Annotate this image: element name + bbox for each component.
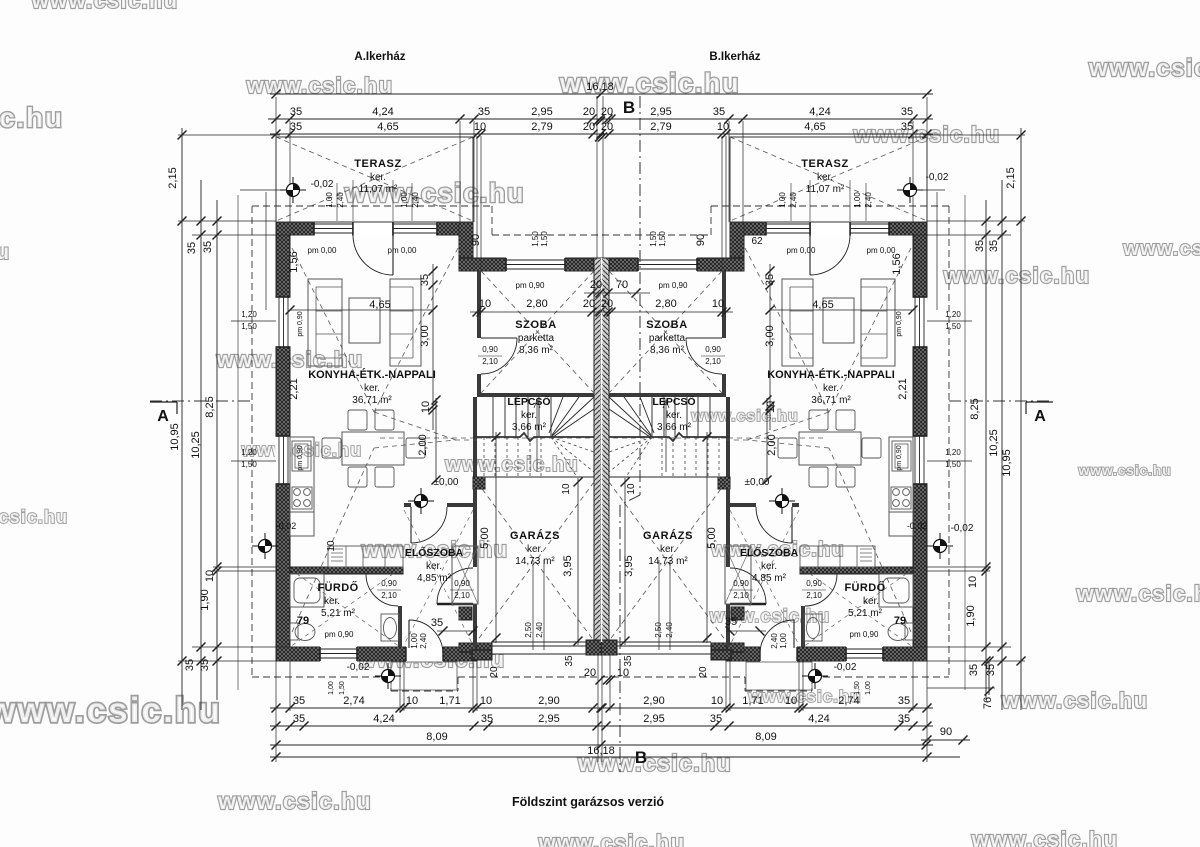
svg-text:10: 10	[561, 483, 572, 495]
svg-text:1,50: 1,50	[531, 231, 540, 247]
svg-text:2,79: 2,79	[650, 121, 671, 133]
svg-text:79: 79	[297, 615, 309, 627]
dimension 90 bottom right	[921, 739, 970, 741]
dimension line top row 1	[268, 118, 933, 120]
svg-text:20: 20	[601, 298, 613, 310]
svg-text:1,71: 1,71	[439, 695, 460, 707]
svg-text:2,50: 2,50	[654, 622, 663, 638]
svg-text:www.csic.hu: www.csic.hu	[444, 454, 579, 476]
svg-text:35: 35	[710, 713, 722, 725]
section axis B bottom	[619, 505, 621, 772]
svg-text:ker.: ker.	[817, 172, 833, 183]
svg-text:2,10: 2,10	[381, 591, 397, 600]
svg-text:20: 20	[601, 106, 613, 118]
svg-text:SZOBA: SZOBA	[515, 319, 557, 331]
svg-text:B.Ikerház: B.Ikerház	[709, 51, 760, 63]
svg-text:-0,02: -0,02	[951, 523, 974, 534]
svg-text:35: 35	[901, 121, 913, 133]
svg-text:8,09: 8,09	[755, 731, 776, 743]
svg-text:1,50: 1,50	[945, 322, 961, 331]
bottom center ticks 20/10	[596, 676, 605, 685]
survey marker bottom A	[375, 663, 401, 689]
svg-text:8,36 m²: 8,36 m²	[650, 345, 685, 356]
svg-text:4,65: 4,65	[377, 121, 398, 133]
svg-text:11,07 m²: 11,07 m²	[359, 184, 398, 195]
interior dim line 2,00	[435, 398, 437, 482]
svg-text:1,00: 1,00	[779, 633, 788, 649]
svg-text:8,25: 8,25	[204, 396, 216, 417]
svg-text:2,80: 2,80	[655, 298, 676, 310]
svg-text:-0,02: -0,02	[347, 662, 370, 673]
svg-text:B: B	[635, 748, 647, 767]
survey level line A	[240, 189, 280, 191]
svg-text:-0,02: -0,02	[926, 172, 949, 183]
svg-text:10,95: 10,95	[169, 423, 181, 451]
interior dim line living/szoba B	[769, 264, 771, 430]
svg-text:3,66 m²: 3,66 m²	[512, 422, 547, 433]
svg-text:A.Ikerház: A.Ikerház	[354, 51, 405, 63]
label divider lines terrace doors	[336, 183, 338, 221]
svg-text:www.csic.hu: www.csic.hu	[217, 788, 372, 814]
svg-text:76: 76	[982, 697, 994, 709]
svg-text:2,10: 2,10	[705, 357, 721, 366]
svg-text:pm 0,90: pm 0,90	[325, 630, 354, 639]
unit A geometry	[275, 137, 602, 690]
svg-text:0,90: 0,90	[381, 579, 397, 588]
svg-text:www.csic.hu: www.csic.hu	[0, 241, 10, 264]
svg-text:10: 10	[326, 540, 337, 552]
svg-text:35: 35	[968, 664, 980, 676]
svg-text:0,90: 0,90	[705, 345, 721, 354]
svg-text:10,95: 10,95	[1001, 449, 1013, 477]
svg-text:2,10: 2,10	[806, 591, 822, 600]
right dimension chain inner	[985, 200, 987, 700]
svg-text:14,73 m²: 14,73 m²	[515, 556, 555, 567]
svg-text:GARÁZS: GARÁZS	[510, 529, 560, 542]
svg-text:10: 10	[204, 570, 216, 582]
svg-text:90: 90	[695, 234, 707, 246]
svg-text:1,56: 1,56	[288, 251, 300, 272]
svg-text:2,95: 2,95	[538, 713, 559, 725]
svg-text:35: 35	[898, 713, 910, 725]
svg-text:11,07 m²: 11,07 m²	[806, 184, 845, 195]
svg-text:3,00: 3,00	[764, 325, 776, 346]
svg-text:3,66 m²: 3,66 m²	[657, 422, 692, 433]
svg-text:www.csic.hu: www.csic.hu	[0, 102, 64, 133]
svg-text:ker.: ker.	[761, 561, 777, 572]
section line A left	[150, 400, 252, 402]
svg-text:4,24: 4,24	[809, 106, 830, 118]
svg-text:ker.: ker.	[324, 596, 340, 607]
dimension line bottom row 3 (8,09)	[270, 744, 933, 746]
svg-text:ELŐSZOBA: ELŐSZOBA	[740, 546, 799, 559]
svg-text:90: 90	[470, 234, 482, 246]
survey marker bottom B	[802, 663, 828, 689]
svg-text:90: 90	[940, 726, 952, 738]
interior dim line szoba width	[470, 311, 733, 313]
svg-text:14,73 m²: 14,73 m²	[648, 556, 688, 567]
svg-text:10: 10	[420, 401, 432, 413]
survey level line B	[923, 189, 945, 191]
svg-text:ker.: ker.	[660, 544, 676, 555]
svg-text:20: 20	[698, 666, 709, 678]
svg-text:FÜRDŐ: FÜRDŐ	[844, 581, 885, 594]
svg-text:2,10: 2,10	[733, 591, 749, 600]
svg-text:4,24: 4,24	[808, 713, 829, 725]
side boundary thin lines	[237, 195, 239, 690]
svg-text:35: 35	[419, 274, 431, 286]
svg-text:pm 0,90: pm 0,90	[516, 281, 545, 290]
svg-text:0,90: 0,90	[733, 579, 749, 588]
svg-text:8,09: 8,09	[426, 731, 447, 743]
svg-text:8,25: 8,25	[969, 398, 981, 419]
svg-text:10: 10	[712, 298, 724, 310]
svg-text:±0,00: ±0,00	[434, 477, 459, 488]
left dimension chain outer	[181, 128, 183, 710]
svg-text:2,74: 2,74	[343, 695, 364, 707]
svg-text:1,00: 1,00	[325, 192, 334, 208]
svg-text:5,21 m²: 5,21 m²	[321, 608, 356, 619]
svg-text:35: 35	[481, 713, 493, 725]
svg-text:KONYHA-ÉTK.-NAPPALI: KONYHA-ÉTK.-NAPPALI	[308, 368, 436, 381]
svg-text:ker.: ker.	[863, 596, 879, 607]
svg-text:10,25: 10,25	[190, 431, 202, 459]
svg-text:www.csic.hu: www.csic.hu	[690, 408, 798, 425]
svg-text:pm 0,90: pm 0,90	[659, 281, 688, 290]
svg-text:ker.: ker.	[666, 410, 682, 421]
svg-text:20: 20	[590, 279, 602, 291]
svg-text:70: 70	[616, 279, 628, 291]
svg-text:35: 35	[988, 240, 1000, 252]
survey marker interior B	[769, 488, 795, 514]
svg-text:5,00: 5,00	[479, 527, 491, 548]
svg-text:2,00: 2,00	[766, 434, 778, 455]
svg-text:10: 10	[406, 695, 418, 707]
svg-text:pm 0,90: pm 0,90	[896, 311, 903, 336]
survey marker left	[252, 533, 278, 559]
svg-text:1,50: 1,50	[241, 322, 257, 331]
svg-text:LÉPCSŐ: LÉPCSŐ	[652, 395, 695, 408]
dimension line bottom row 2	[270, 725, 933, 727]
svg-text:1,20: 1,20	[945, 448, 961, 457]
svg-text:2,95: 2,95	[643, 713, 664, 725]
svg-text:2,40: 2,40	[419, 633, 428, 649]
svg-text:35: 35	[290, 121, 302, 133]
svg-text:10: 10	[785, 695, 797, 707]
svg-text:parketta: parketta	[649, 333, 686, 344]
svg-text:pm 0,00: pm 0,00	[308, 246, 337, 255]
right dimension chain middle	[1001, 180, 1003, 710]
svg-text:1,00: 1,00	[410, 633, 419, 649]
svg-text:-0,02: -0,02	[276, 521, 297, 531]
svg-text:2,80: 2,80	[526, 298, 547, 310]
svg-text:62: 62	[751, 236, 763, 247]
svg-text:4,85 m²: 4,85 m²	[417, 573, 452, 584]
svg-text:35: 35	[713, 106, 725, 118]
svg-text:35: 35	[199, 659, 211, 671]
svg-text:-0,02: -0,02	[907, 521, 928, 531]
dimension line top row 0 (16,18)	[270, 93, 933, 95]
svg-text:4,24: 4,24	[373, 713, 394, 725]
svg-text:Földszint garázsos verzió: Földszint garázsos verzió	[512, 795, 664, 809]
svg-text:1,00: 1,00	[778, 192, 787, 208]
svg-text:35: 35	[564, 655, 575, 667]
interior dim line 4,65 living	[290, 309, 433, 311]
svg-text:1,20: 1,20	[241, 310, 257, 319]
svg-text:2,15: 2,15	[1005, 167, 1017, 188]
svg-text:www.csic.hu: www.csic.hu	[1077, 462, 1171, 478]
svg-text:2,21: 2,21	[897, 378, 909, 399]
witness lines right	[923, 134, 1025, 136]
svg-text:4,65: 4,65	[804, 121, 825, 133]
svg-text:16,18: 16,18	[587, 745, 615, 757]
svg-text:2,40: 2,40	[789, 192, 798, 208]
svg-text:35: 35	[898, 695, 910, 707]
svg-text:2,90: 2,90	[538, 695, 559, 707]
svg-text:0,90: 0,90	[482, 345, 498, 354]
section line A right	[949, 400, 1053, 402]
svg-text:2,40: 2,40	[770, 633, 779, 649]
svg-text:-0,02: -0,02	[834, 662, 857, 673]
svg-text:-0,02: -0,02	[311, 179, 334, 190]
svg-text:2,79: 2,79	[531, 121, 552, 133]
svg-text:20: 20	[583, 121, 595, 133]
svg-text:www.csic.hu: www.csic.hu	[1076, 581, 1200, 606]
svg-text:3,95: 3,95	[623, 555, 635, 576]
svg-text:4,65: 4,65	[812, 299, 833, 311]
svg-text:B: B	[623, 98, 635, 117]
svg-text:pm 0,90: pm 0,90	[850, 630, 879, 639]
svg-text:www.csic.hu: www.csic.hu	[0, 691, 222, 730]
svg-text:2,50: 2,50	[524, 622, 533, 638]
svg-text:2,40: 2,40	[665, 622, 674, 638]
svg-text:36,71 m²: 36,71 m²	[811, 395, 851, 406]
svg-text:10: 10	[717, 121, 729, 133]
witness lines top	[275, 97, 277, 137]
unit B geometry (mirrored)	[601, 137, 928, 690]
svg-text:16,18: 16,18	[586, 81, 614, 93]
svg-text:35: 35	[623, 655, 634, 667]
svg-text:2,00: 2,00	[417, 434, 429, 455]
svg-text:35: 35	[478, 106, 490, 118]
survey marker right	[927, 533, 953, 559]
svg-text:35: 35	[764, 274, 776, 286]
svg-text:1,20: 1,20	[945, 310, 961, 319]
svg-text:A: A	[1034, 408, 1046, 425]
svg-text:8,36 m²: 8,36 m²	[519, 345, 554, 356]
svg-text:pm 0,90: pm 0,90	[896, 445, 903, 470]
svg-text:ker.: ker.	[527, 544, 543, 555]
witness lines terrace door edges	[352, 180, 354, 221]
svg-text:35: 35	[202, 241, 214, 253]
interior dim line living/szoba	[432, 264, 434, 430]
svg-text:10: 10	[765, 401, 777, 413]
svg-text:KONYHA-ÉTK.-NAPPALI: KONYHA-ÉTK.-NAPPALI	[767, 368, 895, 381]
svg-text:ker.: ker.	[370, 172, 386, 183]
svg-text:www.csic.hu: www.csic.hu	[1001, 688, 1149, 713]
svg-text:A: A	[157, 408, 169, 425]
svg-text:±0,00: ±0,00	[745, 477, 770, 488]
svg-text:pm 0,00: pm 0,00	[787, 246, 816, 255]
svg-text:20: 20	[583, 106, 595, 118]
svg-text:www.csic.hu: www.csic.hu	[1122, 238, 1200, 260]
svg-text:FÜRDŐ: FÜRDŐ	[317, 581, 358, 594]
svg-text:1,71: 1,71	[742, 695, 763, 707]
svg-text:35: 35	[901, 106, 913, 118]
garage door dim lines	[532, 560, 534, 650]
svg-text:35: 35	[431, 617, 443, 629]
svg-text:TERASZ: TERASZ	[801, 158, 849, 170]
svg-text:10: 10	[617, 667, 629, 679]
svg-text:35: 35	[186, 242, 198, 254]
svg-text:2,95: 2,95	[650, 106, 671, 118]
svg-text:2,40: 2,40	[864, 192, 873, 208]
svg-text:ker.: ker.	[521, 410, 537, 421]
svg-text:1,00: 1,00	[400, 192, 409, 208]
svg-text:10: 10	[711, 695, 723, 707]
svg-text:GARÁZS: GARÁZS	[643, 529, 693, 542]
svg-text:5,00: 5,00	[706, 527, 718, 548]
svg-text:pm 0,00: pm 0,00	[388, 246, 417, 255]
svg-text:35: 35	[290, 106, 302, 118]
svg-text:1,50: 1,50	[540, 231, 549, 247]
svg-text:35: 35	[985, 664, 997, 676]
svg-text:10: 10	[479, 298, 491, 310]
svg-text:1,50: 1,50	[854, 681, 861, 695]
party wall joint	[601, 258, 603, 642]
section marker A right	[1026, 401, 1053, 403]
svg-text:79: 79	[894, 615, 906, 627]
svg-text:10: 10	[967, 576, 979, 588]
svg-text:ELŐSZOBA: ELŐSZOBA	[405, 546, 464, 559]
svg-text:1,56: 1,56	[891, 253, 903, 274]
dimension line bottom row 4 (16,18)	[270, 756, 960, 758]
survey marker terrace B	[897, 177, 923, 203]
witness lines bottom	[275, 661, 277, 762]
svg-text:1,00: 1,00	[853, 192, 862, 208]
svg-text:2,95: 2,95	[531, 106, 552, 118]
svg-text:1,00: 1,00	[328, 681, 335, 695]
svg-text:20: 20	[583, 298, 595, 310]
eaves dashed outline	[252, 205, 492, 207]
svg-text:2,10: 2,10	[454, 591, 470, 600]
svg-text:10: 10	[626, 483, 637, 495]
svg-text:35: 35	[725, 616, 737, 628]
svg-text:www.csic.hu: www.csic.hu	[538, 830, 686, 847]
svg-text:0,90: 0,90	[806, 579, 822, 588]
svg-text:ker.: ker.	[823, 383, 839, 394]
section axis B top	[639, 96, 641, 495]
svg-text:20: 20	[584, 667, 596, 679]
interior dim line 5,00	[495, 432, 497, 643]
survey marker interior A	[408, 488, 434, 514]
svg-text:4,65: 4,65	[369, 299, 390, 311]
svg-text:36,71 m²: 36,71 m²	[352, 395, 392, 406]
svg-text:www.csic.hu: www.csic.hu	[1088, 55, 1200, 82]
svg-text:1,90: 1,90	[199, 589, 211, 610]
interior dim line 3,95	[577, 478, 579, 645]
svg-text:SZOBA: SZOBA	[646, 319, 688, 331]
svg-text:2,74: 2,74	[838, 695, 859, 707]
svg-text:4,24: 4,24	[372, 106, 393, 118]
svg-text:35: 35	[974, 240, 986, 252]
svg-text:2,15: 2,15	[167, 167, 179, 188]
dimension line bottom row 1	[270, 707, 933, 709]
svg-text:35: 35	[184, 659, 196, 671]
svg-text:ker.: ker.	[364, 383, 380, 394]
svg-text:1,50: 1,50	[339, 681, 346, 695]
svg-text:3,95: 3,95	[562, 555, 574, 576]
svg-text:35: 35	[293, 713, 305, 725]
left dimension chain inner	[216, 200, 218, 700]
svg-text:2,10: 2,10	[482, 357, 498, 366]
svg-text:2,21: 2,21	[288, 378, 300, 399]
witness lines left	[178, 134, 280, 136]
svg-text:ker.: ker.	[426, 561, 442, 572]
svg-text:1,50: 1,50	[649, 231, 658, 247]
svg-text:20: 20	[601, 121, 613, 133]
svg-text:35: 35	[293, 695, 305, 707]
svg-text:pm 0,90: pm 0,90	[297, 311, 304, 336]
svg-text:parketta: parketta	[518, 333, 555, 344]
right 76 chain	[988, 661, 990, 695]
svg-text:10: 10	[480, 695, 492, 707]
svg-text:0,90: 0,90	[454, 579, 470, 588]
survey marker terrace A	[280, 177, 306, 203]
svg-text:1,20: 1,20	[241, 448, 257, 457]
interior dim lines garage B mirror 5,00/3,95	[706, 432, 708, 643]
dimension line top row 2	[270, 133, 933, 135]
svg-text:1,90: 1,90	[965, 605, 977, 626]
svg-text:1,50: 1,50	[658, 231, 667, 247]
svg-text:2,40: 2,40	[535, 622, 544, 638]
svg-text:LÉPCSŐ: LÉPCSŐ	[507, 395, 550, 408]
section marker A left	[150, 401, 177, 403]
svg-text:www.csic.hu: www.csic.hu	[971, 827, 1119, 847]
interior dim line 20/70	[584, 292, 650, 294]
right dimension chain outer	[1020, 128, 1022, 710]
svg-text:2,40: 2,40	[411, 192, 420, 208]
svg-text:10: 10	[474, 121, 486, 133]
svg-text:pm 0,90: pm 0,90	[297, 445, 304, 470]
svg-text:10,25: 10,25	[988, 429, 1000, 457]
svg-text:TERASZ: TERASZ	[354, 158, 402, 170]
svg-text:3,00: 3,00	[419, 325, 431, 346]
svg-text:1,00: 1,00	[865, 681, 872, 695]
svg-text:www.csic.hu: www.csic.hu	[31, 0, 179, 13]
svg-text:4,85 m²: 4,85 m²	[752, 573, 787, 584]
svg-text:2,90: 2,90	[643, 695, 664, 707]
svg-text:www.csic.hu: www.csic.hu	[0, 507, 68, 527]
svg-text:20: 20	[489, 666, 500, 678]
svg-text:5,21 m²: 5,21 m²	[848, 608, 883, 619]
svg-text:2,40: 2,40	[336, 192, 345, 208]
left dimension chain middle	[200, 180, 202, 710]
